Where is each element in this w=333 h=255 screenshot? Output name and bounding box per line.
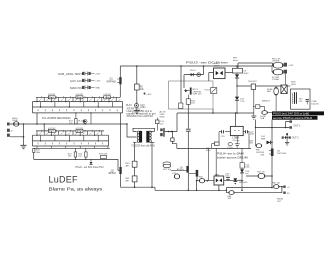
- svg-text:OUT 2: OUT 2: [292, 138, 299, 140]
- svg-text:1k0: 1k0: [78, 156, 82, 158]
- relay enclosure box: [169, 81, 214, 109]
- wire AC to fuse: [165, 113, 177, 132]
- wire TH column to gnd: [253, 90, 255, 116]
- svg-text:Blame Pa, as always: Blame Pa, as always: [49, 186, 103, 191]
- wire rail B: [155, 189, 226, 191]
- fuse F5: [256, 144, 262, 148]
- ferrite FB4 on rail D: [229, 191, 234, 195]
- svg-text:1k0: 1k0: [191, 103, 195, 105]
- OUT2 row: [282, 136, 284, 138]
- svg-text:(other across DRUM: (other across DRUM: [217, 156, 248, 160]
- connector J1 pin: [7, 123, 10, 126]
- capacitor C19 column: [241, 148, 243, 190]
- connector J10 stubs + right labels: [91, 73, 95, 87]
- wire top rail: [120, 65, 272, 67]
- text FB3 note: [260, 152, 265, 156]
- wire fuse to bar: [267, 112, 272, 114]
- wire bank2 line D: [33, 145, 109, 147]
- wire BR2 right: [224, 180, 242, 182]
- text FB1 label: [272, 58, 280, 62]
- transistor Q4: [189, 172, 196, 174]
- svg-text:100k: 100k: [36, 152, 41, 154]
- capacitor plate tick: [286, 133, 288, 135]
- wire bank1 line D: [33, 112, 123, 114]
- wire aux rail: [177, 147, 251, 149]
- svg-text:BD139: BD139: [177, 169, 184, 171]
- resistor R41: [246, 175, 272, 177]
- svg-text:SUB_ADSL TEST: SUB_ADSL TEST: [58, 73, 83, 76]
- thermistor TH2: [256, 105, 260, 109]
- wire regulator top pin: [235, 113, 237, 126]
- resistor box RB1b: [76, 96, 83, 99]
- connector J2 pins: [7, 129, 10, 132]
- svg-text:R41 1R: R41 1R: [258, 171, 266, 173]
- wire rail C: [226, 187, 272, 189]
- svg-text:PLD4: PLD4: [204, 89, 210, 91]
- bank2 transistor ticks: [39, 133, 99, 135]
- fan symbol M1: [281, 85, 287, 94]
- connector OUT pins: [283, 186, 285, 188]
- capacitor C18: [227, 180, 229, 181]
- capacitor C23: [174, 174, 179, 179]
- text BR1 label: [214, 63, 220, 67]
- pin P1b: [284, 70, 287, 74]
- resistor R20 left drop: [33, 149, 35, 153]
- text L7805 label: [232, 136, 240, 139]
- svg-text:0.1R 5W: 0.1R 5W: [48, 94, 55, 96]
- relay aux contact: [211, 88, 217, 94]
- wire BR2 feed: [215, 148, 217, 176]
- svg-text:STATUS:: STATUS:: [127, 107, 142, 110]
- wire T1 top loop: [133, 128, 155, 131]
- indicator PLD5: [228, 143, 232, 146]
- svg-text:12V: 12V: [299, 101, 303, 103]
- diode pair D12: [233, 178, 237, 181]
- wire OUT1 feed: [256, 120, 286, 128]
- svg-text:1000u/35: 1000u/35: [239, 182, 249, 184]
- wire sense drop: [255, 128, 257, 146]
- wire input bus: [10, 123, 128, 125]
- svg-text:0V: 0V: [287, 193, 290, 195]
- bridge rectifier BR2: [214, 176, 224, 185]
- wire fan to transformer box: [287, 85, 290, 87]
- svg-text:PLD1: PLD1: [126, 105, 132, 107]
- svg-text:240V: 240V: [291, 84, 296, 86]
- resistor R22: [78, 153, 83, 157]
- svg-text:GND: GND: [95, 88, 100, 90]
- T1 left winding: [137, 131, 139, 142]
- wire FB6 to pins: [279, 187, 283, 193]
- resistor R23: [99, 154, 108, 156]
- svg-text:+V: +V: [287, 187, 290, 189]
- connector J1 label: [12, 118, 18, 122]
- svg-text:0.1R 5W: 0.1R 5W: [103, 94, 110, 96]
- bridge rectifier BR1: [214, 68, 226, 79]
- rail junction dots: [134, 186, 273, 191]
- T1 core bars: [139, 131, 142, 143]
- IC U2 L7805: [230, 126, 243, 135]
- wire sense column: [208, 148, 210, 180]
- svg-text:bead: bead: [233, 60, 238, 62]
- resistor box RB2b: [76, 129, 83, 132]
- wire bank2 line B: [33, 134, 109, 136]
- node bus junctions: [23, 123, 128, 125]
- text BR2 label: [215, 174, 220, 176]
- wire bank2 line A: [36, 130, 104, 132]
- bank1 resistor labels: [48, 94, 111, 96]
- note bar 1: [272, 111, 324, 115]
- text PSU4 title: [217, 152, 248, 160]
- wire bank1 line B: [33, 101, 123, 103]
- bank1 transistor ticks: [39, 99, 120, 101]
- svg-text:PLL 2N3055 DECODING: PLL 2N3055 DECODING: [42, 117, 71, 120]
- bank2 resistor labels: [48, 128, 83, 130]
- svg-text:2A: 2A: [277, 181, 280, 184]
- svg-text:4R7: 4R7: [125, 166, 130, 168]
- svg-text:PSU3 -ser DC Driver: PSU3 -ser DC Driver: [186, 61, 228, 65]
- T1 right winding: [150, 131, 152, 142]
- fuse F4 vertical: [274, 87, 279, 95]
- diode D14: [261, 136, 266, 140]
- transistor Q1: [119, 66, 121, 97]
- resistor R21: [68, 153, 73, 157]
- wire bank1 to bus drop: [36, 113, 38, 124]
- capacitor C15 plates: [186, 129, 191, 131]
- wire rail step: [225, 188, 227, 193]
- connector J10 row1 label: [58, 73, 83, 90]
- wire T1 secondary left down: [134, 142, 136, 187]
- svg-text:+15V: +15V: [95, 81, 101, 83]
- wire TH2 to fuse: [260, 107, 265, 111]
- LED PLD1: [135, 104, 139, 108]
- svg-text:4R7: 4R7: [125, 180, 130, 182]
- svg-text:1k0: 1k0: [68, 156, 72, 158]
- polarized cap C21: [218, 132, 220, 142]
- svg-text:100u/50: 100u/50: [311, 103, 319, 105]
- capacitor C22 right pin: [243, 131, 245, 133]
- zener D13: [240, 169, 244, 172]
- ferrite FB2: [199, 179, 204, 183]
- svg-text:PLD3: PLD3: [190, 70, 196, 72]
- bank1 junction dots: [36, 101, 109, 108]
- ground TH: [251, 116, 256, 119]
- relay RLY1 coil bar: [190, 88, 192, 95]
- svg-text:OUT: OUT: [277, 201, 282, 203]
- resistor R2 column: [136, 66, 138, 104]
- ground under PLD1: [134, 107, 140, 113]
- LED PLD3 symbol: [197, 73, 201, 77]
- transistor Q2: [120, 113, 122, 167]
- wire bank2 line C: [33, 140, 109, 142]
- transformer TR2 box: [291, 89, 311, 109]
- wire relay feed: [180, 66, 182, 103]
- LED PLD2: [84, 120, 87, 124]
- svg-text:400V: 400V: [243, 73, 249, 75]
- indicator PLD3 branch: [184, 66, 204, 88]
- transistor Q5: [271, 149, 274, 157]
- svg-text:(LIT): (LIT): [266, 101, 271, 103]
- resistor box RB1a: [48, 96, 55, 99]
- svg-text:TVS: TVS: [240, 101, 245, 103]
- svg-text:TH1 NTC: TH1 NTC: [248, 81, 258, 83]
- bank1 cell ticks: [38, 96, 117, 111]
- node rail junctions: [136, 65, 238, 67]
- svg-text:10R: 10R: [228, 198, 232, 200]
- svg-text:J2: J2: [10, 130, 13, 132]
- svg-text:+24V: +24V: [288, 65, 294, 67]
- wire second AC line: [238, 63, 273, 68]
- bank2 box inner marks: [50, 130, 82, 132]
- wire J2 to gnd column: [10, 124, 24, 145]
- wire bank2 feed: [43, 124, 45, 131]
- text FB6 label below: [277, 198, 283, 203]
- wire BR2 bottom: [218, 185, 220, 190]
- ground main: [21, 145, 27, 148]
- wire bank1 line C: [33, 106, 123, 108]
- diode D10: [189, 74, 195, 76]
- svg-text:KBU8: KBU8: [214, 66, 220, 68]
- text TR2 label: [299, 99, 304, 103]
- bank1 cell legs: [37, 97, 116, 107]
- bank2 side edges: [33, 135, 109, 146]
- ferrite FB6 to output: [274, 185, 280, 189]
- connector AC pins: [160, 129, 163, 132]
- svg-text:50Hz: 50Hz: [160, 116, 165, 118]
- svg-text:FB6: FB6: [272, 182, 277, 184]
- svg-text:10R: 10R: [260, 154, 264, 156]
- svg-text:IRF540: IRF540: [108, 173, 116, 175]
- svg-text:+50V: +50V: [95, 74, 101, 76]
- bank1 box inner marks: [50, 96, 110, 98]
- svg-text:AUX 12V: AUX 12V: [70, 80, 83, 83]
- wire bank2 emitter rail E: [34, 147, 110, 149]
- net label +30V: [144, 93, 146, 95]
- wire choke links: [272, 66, 285, 85]
- svg-text:IRFP460: IRFP460: [107, 81, 117, 84]
- resistor R12 coil drop: [187, 95, 189, 99]
- resistor box RB2a: [48, 129, 55, 132]
- wire OUT1 pins: [286, 122, 290, 128]
- zener D11: [236, 86, 238, 96]
- connector J10 pins row1: [82, 72, 91, 89]
- svg-text:100n: 100n: [245, 167, 250, 169]
- svg-text:SBR: SBR: [261, 138, 266, 140]
- capacitor C14 snubber top: [156, 118, 158, 120]
- note bar 2: [272, 116, 318, 120]
- resistor R30 on secondary: [132, 161, 137, 167]
- choke L1a: [273, 62, 283, 68]
- svg-text:100u: 100u: [140, 107, 146, 109]
- pin P1a: [284, 63, 287, 67]
- svg-text:C20: C20: [221, 136, 226, 138]
- wire hv feed line: [177, 112, 254, 114]
- svg-text:30V/20A from old PSU: 30V/20A from old PSU: [127, 115, 154, 118]
- svg-text:2n2: 2n2: [160, 124, 164, 126]
- svg-text:100n: 100n: [250, 134, 255, 136]
- choke L1b: [273, 69, 283, 75]
- ground regulator: [236, 136, 238, 144]
- svg-text:10R: 10R: [256, 152, 260, 154]
- wire AC filter line: [237, 85, 281, 87]
- svg-text:parallel (matched) to get: parallel (matched) to get: [127, 113, 156, 116]
- wire T1 secondary right down: [151, 142, 153, 187]
- svg-text:PSU1 - ser 30V drive PSU: PSU1 - ser 30V drive PSU: [76, 166, 104, 169]
- relay RLY1 contact diode: [184, 90, 189, 92]
- text filter labels: [272, 65, 297, 86]
- ferrite bead FB10: [13, 122, 19, 127]
- capacitor C9 box: [236, 66, 238, 68]
- text FB9 label: [233, 58, 238, 62]
- svg-text:2SC5200: 2SC5200: [277, 153, 287, 155]
- capacitor C16B: [306, 99, 309, 101]
- svg-text:+5V reg: +5V reg: [232, 139, 240, 142]
- bank2 cell ticks: [38, 130, 103, 145]
- wire BR2 left: [197, 181, 214, 191]
- wire relay box to regulator: [212, 109, 214, 113]
- wire BR1 right: [225, 72, 235, 74]
- resistor R31 on secondary: [132, 176, 137, 182]
- diode D9: [236, 73, 238, 74]
- wire BR1 left: [209, 73, 214, 82]
- connector J10 shells: [85, 72, 88, 90]
- text SW note: [262, 101, 271, 103]
- svg-text:G2R 12V: G2R 12V: [193, 94, 203, 96]
- wire main right column: [271, 120, 273, 188]
- bank2 junction dots: [36, 135, 99, 142]
- svg-text:10A: 10A: [260, 117, 264, 120]
- wire rail D: [226, 192, 282, 194]
- resistor R14 under bank1: [75, 113, 77, 119]
- bank2 cell legs: [37, 131, 102, 141]
- text AC inlet label: [160, 111, 166, 119]
- svg-text:0.1R 5W: 0.1R 5W: [76, 94, 83, 96]
- svg-text:0.1R 5W: 0.1R 5W: [48, 128, 55, 130]
- wire drive rail G: [34, 152, 120, 170]
- text STATUS comment: [127, 107, 156, 118]
- svg-text:zen: zen: [245, 173, 249, 175]
- transistor Q3: [186, 166, 189, 173]
- svg-text:+30V: +30V: [146, 94, 152, 96]
- connector AC shell bar: [163, 128, 164, 137]
- net tag small: [0, 0, 1, 1]
- wire snubber column: [187, 104, 189, 128]
- capacitor C20 left pin: [219, 131, 230, 133]
- fuse F2 in relay box: [179, 103, 183, 108]
- svg-text:10k: 10k: [140, 89, 145, 91]
- wire bank1 top line A: [36, 96, 120, 98]
- wire rail A: [121, 187, 156, 190]
- T1 pin stubs: [133, 131, 155, 142]
- resistor box RB1c: [104, 96, 111, 99]
- svg-text:PLD5: PLD5: [228, 147, 234, 149]
- wire VR1 to Q3 gate: [171, 169, 187, 171]
- svg-text:LuDEF: LuDEF: [49, 175, 79, 185]
- text RLY1 labels: [193, 89, 211, 96]
- svg-text:275VAC: 275VAC: [272, 78, 280, 81]
- potentiometer VR1: [163, 162, 171, 165]
- svg-text:MAIN 5V: MAIN 5V: [70, 87, 83, 90]
- TR2 core: [294, 92, 295, 104]
- thermistor TH1: [251, 84, 255, 90]
- bank1 side edges: [33, 102, 123, 113]
- svg-text:0R1: 0R1: [249, 143, 254, 145]
- svg-text:source PSU5 is source PSU2: source PSU5 is source PSU2: [273, 116, 313, 120]
- fuse F3: [262, 111, 268, 115]
- wire PLD2 drop: [90, 113, 92, 124]
- svg-text:0.1R 5W: 0.1R 5W: [76, 128, 83, 130]
- svg-text:VR1 10k: VR1 10k: [163, 169, 172, 171]
- svg-text:FB2: FB2: [199, 176, 204, 178]
- svg-text:PSU5 (ex) 24V D/S or (old): PSU5 (ex) 24V D/S or (old): [273, 112, 309, 116]
- fuse F1: [171, 132, 173, 138]
- wire T1 mid tap: [127, 124, 137, 137]
- svg-text:OUT 1: OUT 1: [293, 125, 301, 128]
- ground OUT2: [286, 140, 288, 143]
- diode pair D20: [90, 159, 92, 161]
